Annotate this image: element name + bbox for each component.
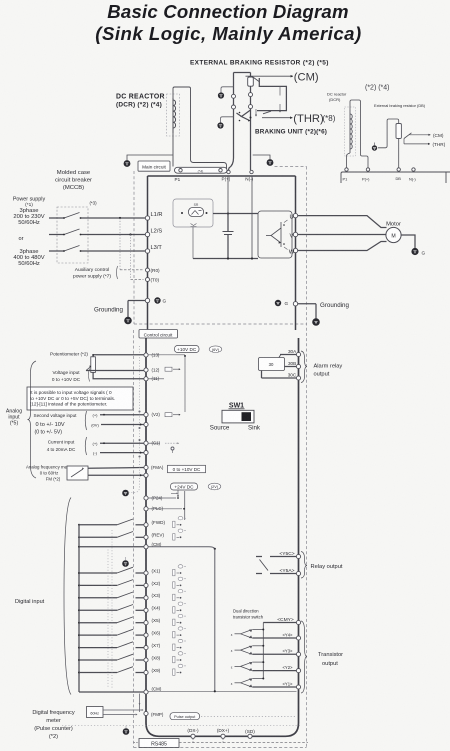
smoothing capacitor bbox=[227, 214, 229, 232]
wire 11 internal bbox=[148, 378, 164, 380]
control-circuit inner dotted shield line bbox=[139, 346, 141, 408]
MCCB dashed outline bbox=[57, 207, 88, 263]
terminal (PLC) bbox=[144, 507, 148, 511]
wire W to motor bbox=[298, 242, 387, 251]
wire CM lower internal bbox=[148, 690, 296, 692]
internal +10V DC supply label bbox=[175, 346, 200, 353]
junction on L2 wire bbox=[129, 233, 131, 235]
alarm relay contact blade bbox=[276, 355, 281, 363]
terminal (13) potentiometer supply bbox=[144, 353, 148, 357]
internal current sense mark bbox=[171, 447, 174, 450]
wire Y1 upper arrow to CMY rail bbox=[252, 678, 263, 680]
wire phase L1 input bbox=[49, 217, 64, 219]
inverter main-circuit dashed enclosure bbox=[275, 166, 307, 168]
switch contact to CM thermal relay bbox=[246, 75, 294, 77]
wire phase L2 input bbox=[49, 234, 64, 236]
terminal screw N(-) bbox=[250, 170, 253, 173]
braking unit top bridge wire bbox=[234, 72, 251, 74]
alarm relay contact 30C wire bbox=[262, 377, 297, 379]
grounding screw on inverter top right bbox=[267, 159, 274, 166]
alarm relay contact 30A wire bbox=[280, 354, 296, 356]
terminal screw P(+) bbox=[227, 170, 230, 173]
internal (6V) label bbox=[209, 346, 222, 353]
terminal (REV) reverse command with switch bbox=[78, 536, 80, 538]
wire DCR top elbow bbox=[173, 87, 227, 169]
main circuit terminal strip jumper bar P1-P(+) bbox=[175, 167, 228, 173]
wire grounding right bbox=[298, 303, 316, 305]
wire PLC internal bbox=[148, 508, 182, 510]
terminal <Y5A> bbox=[296, 571, 300, 575]
digital frequency meter element bbox=[87, 707, 104, 718]
wire DB resistor top loop bbox=[378, 119, 399, 148]
terminal (11) analog common bbox=[144, 377, 148, 381]
control circuit right bus bbox=[286, 338, 299, 736]
digital input group brace bbox=[64, 498, 71, 695]
junction 0V to common bbox=[140, 424, 142, 426]
wire +24V to P24 terminal bbox=[177, 490, 179, 496]
terminal (X5) digital input with switch bbox=[78, 622, 80, 624]
alarm relay output brace bbox=[301, 351, 307, 383]
internal buffer symbol 12 bbox=[165, 367, 172, 371]
wire P(+) feed down bbox=[227, 176, 229, 214]
Control circuit label box bbox=[139, 330, 178, 339]
pulse output label box bbox=[170, 713, 200, 720]
rectifier bridge bbox=[189, 208, 204, 217]
inverter control-circuit left dashed border bbox=[133, 330, 135, 748]
rectifier assembly outline bbox=[173, 199, 213, 227]
main circuit box right edge bbox=[295, 176, 297, 330]
terminal (CM) digital common lower bbox=[144, 690, 148, 694]
wire Y3 upper arrow to CMY rail bbox=[252, 645, 263, 647]
alarm relay contact 30B wire bbox=[285, 366, 297, 368]
inverter IGBT bridge box bbox=[258, 211, 292, 258]
wire motor ground bbox=[401, 235, 415, 248]
wire meter return bbox=[103, 714, 136, 716]
grounding screw on inverter top left bbox=[124, 160, 131, 167]
wire Y2 upper arrow to CMY rail bbox=[252, 661, 263, 663]
terminal <Y4> bbox=[296, 636, 300, 640]
terminal (X3) digital input with switch bbox=[78, 597, 80, 599]
inner return stub wire bbox=[279, 86, 281, 95]
analog input group brace bbox=[28, 361, 37, 478]
terminal (X9) digital input with switch bbox=[78, 672, 80, 674]
wire Y4 upper arrow to CMY rail bbox=[252, 629, 263, 631]
optional box right edge hint bbox=[445, 172, 447, 183]
terminal W bbox=[293, 248, 297, 252]
terminal (CM) digital common upper bbox=[144, 545, 148, 549]
potentiometer element bbox=[91, 357, 96, 373]
grounding terminal G right bbox=[275, 300, 281, 306]
relay output contact blade bbox=[260, 560, 269, 571]
wire DB resistor to DB terminal bbox=[398, 139, 400, 171]
junction current return bbox=[140, 452, 142, 454]
wire U to motor bbox=[298, 216, 387, 228]
connection arrow to braking unit terminal 2 bbox=[255, 115, 257, 117]
optional DC reactor coil bbox=[349, 110, 351, 153]
wire CM drop to meter return bbox=[139, 694, 141, 713]
wire potentiometer top to terminal 13 bbox=[93, 355, 144, 357]
wire phase L3 input bbox=[49, 250, 64, 252]
shield junction dots on dotted line bbox=[139, 411, 141, 413]
grounding screw on optional braking resistor bbox=[372, 145, 377, 150]
terminal (X1) digital input with switch bbox=[78, 572, 80, 574]
inverter bottom dashed border bbox=[134, 747, 307, 749]
terminal 30B bbox=[296, 364, 300, 368]
internal common rail vertical bbox=[214, 549, 216, 692]
terminal (C1) bbox=[144, 441, 148, 445]
breaker pole 2 bbox=[64, 229, 80, 235]
wire DC link negative rail bbox=[193, 258, 258, 260]
braking unit terminal screw lower-left bbox=[232, 105, 236, 109]
dotted pulse output run bbox=[201, 715, 295, 717]
optional inverter box top edge bbox=[341, 172, 450, 183]
braking unit terminal screw upper-right bbox=[249, 93, 253, 97]
terminal <Y1> bbox=[296, 685, 300, 689]
switch contact to THR thermal relay bbox=[262, 117, 293, 119]
wire Y3 output bbox=[252, 653, 296, 655]
dotted shield pair bottom bbox=[62, 725, 300, 727]
wire meter to FMA bbox=[88, 467, 144, 470]
wire CMY common bbox=[263, 622, 296, 624]
wire DCR to P1 terminal bbox=[172, 133, 174, 167]
terminal (X8) digital input with switch bbox=[78, 659, 80, 661]
junction DC+ at capacitor bbox=[227, 212, 229, 214]
ground symbol left bbox=[124, 317, 132, 325]
terminal <Y3> bbox=[296, 652, 300, 656]
alarm relay coil box 30 bbox=[259, 358, 285, 371]
wire Y1 output bbox=[252, 686, 296, 688]
terminal (FMP) bbox=[144, 711, 148, 715]
dotted drop to auxiliary R0 bbox=[119, 218, 121, 270]
terminal 30A bbox=[296, 352, 300, 356]
breaker pole 3 bbox=[64, 246, 80, 252]
terminal 30C bbox=[296, 376, 300, 380]
internal buffer symbol C1 bbox=[148, 442, 160, 444]
wire meter return bbox=[88, 474, 144, 476]
grounding screw terminal upper on braking unit bbox=[218, 92, 224, 98]
terminal (X7) digital input with switch bbox=[78, 647, 80, 649]
wire optional DCR to P1 bbox=[346, 156, 348, 171]
FMA output range label box bbox=[168, 465, 206, 472]
terminal <Y5C> bbox=[296, 554, 300, 558]
ground symbol motor bbox=[411, 248, 418, 255]
breaker pole 1 bbox=[64, 213, 80, 219]
wire connecting thermal switch legs bbox=[403, 139, 405, 144]
terminal <CMY> bbox=[296, 620, 300, 624]
relay output Y5C wire bbox=[270, 556, 296, 558]
dashed RS485 cable bbox=[179, 742, 308, 744]
wire optional DCR top loop to P(+) bbox=[350, 100, 368, 171]
wire grounding left bbox=[128, 300, 145, 302]
wire Y4 output bbox=[252, 637, 296, 639]
wire V to motor bbox=[298, 234, 386, 236]
shield ground symbol bottom bbox=[123, 728, 130, 735]
internal +24V DC supply label bbox=[171, 483, 198, 490]
terminal (X2) digital input with switch bbox=[78, 584, 80, 586]
terminal L2/S bbox=[145, 232, 149, 236]
wire DC link positive rail bbox=[213, 213, 258, 215]
main circuit box top edge bbox=[148, 175, 296, 177]
analog frequency meter element bbox=[67, 466, 88, 480]
terminal <Y2> bbox=[296, 669, 300, 673]
scan noise overlay bbox=[0, 0, 1, 1]
motor M bbox=[386, 227, 401, 242]
terminal (V2) bbox=[144, 413, 148, 417]
control circuit bottom bus bbox=[159, 735, 286, 737]
digital common vertical wire bbox=[78, 525, 80, 692]
main circuit box left edge bbox=[147, 176, 149, 330]
terminal V bbox=[293, 232, 297, 236]
terminal L3/T bbox=[145, 249, 149, 253]
dotted drop to auxiliary T0 bbox=[130, 235, 132, 280]
grounding screw terminal lower on braking unit bbox=[217, 122, 223, 128]
connection arrow to braking unit terminal 1 bbox=[279, 111, 281, 113]
braking unit right vertical wire N(-) riser bbox=[250, 73, 252, 171]
wire 13 internal to +10V rail bbox=[148, 354, 185, 356]
wire Y2 output bbox=[252, 670, 296, 672]
optional terminal screws P1 P(+) DB N(-) bbox=[345, 168, 348, 171]
terminal (12) voltage input bbox=[144, 368, 148, 372]
internal buffer symbol V2 bbox=[165, 413, 172, 417]
RS485 connector box bbox=[139, 739, 179, 748]
SW1 slide switch body bbox=[222, 410, 254, 423]
junction on L1 wire bbox=[119, 217, 121, 219]
wire potentiometer bottom to terminal 11 bbox=[93, 372, 144, 378]
wire CM internal to common rail bbox=[148, 547, 214, 549]
braking unit terminal screw lower-right bbox=[249, 105, 253, 109]
wire potentiometer wiper to terminal 12 bbox=[86, 370, 144, 372]
braking unit terminal screw upper-left bbox=[232, 94, 236, 98]
terminal L1/R bbox=[145, 216, 149, 220]
grounding terminal G left bbox=[145, 298, 149, 302]
wire N(-) feed down bbox=[251, 176, 253, 259]
optional thermal switch to THR bbox=[404, 143, 430, 145]
Main circuit label box bbox=[138, 161, 170, 171]
IGBT transistor symbol bbox=[280, 222, 282, 247]
wire meter to FMP bbox=[103, 709, 142, 711]
braking unit chopper transistor bbox=[242, 110, 251, 121]
relay output brace bbox=[301, 552, 307, 579]
inverter right dashed border bbox=[306, 167, 308, 748]
DC reactor DCR inductor coil bbox=[172, 98, 174, 133]
relay output Y5A wire bbox=[270, 573, 296, 575]
braking unit left vertical wire P(+) riser bbox=[229, 73, 234, 171]
optional external braking resistor DB element bbox=[396, 124, 401, 139]
CMY common rail vertical bbox=[262, 623, 264, 679]
wire CM lower external common return bbox=[79, 691, 144, 693]
internal +24V rail bbox=[184, 491, 186, 520]
ground symbol right bbox=[312, 318, 320, 326]
CM return loop wire bbox=[257, 78, 286, 111]
rectifier diode marks bbox=[191, 224, 197, 227]
junction rectifier input bbox=[181, 212, 183, 214]
internal (2V) label bbox=[208, 483, 221, 490]
terminal (X4) digital input with switch bbox=[78, 609, 80, 611]
transistor output brace bbox=[301, 621, 307, 693]
terminal (R0) bbox=[146, 268, 150, 272]
terminal (X6) digital input with switch bbox=[78, 634, 80, 636]
dotted shield drain to ground bbox=[129, 408, 140, 493]
optional thermal switch to CM bbox=[410, 134, 431, 136]
DC reactor dashed outline bbox=[167, 94, 180, 136]
shield ground symbol analog bbox=[122, 490, 129, 497]
junction DC- rail bbox=[227, 257, 229, 259]
terminal (FWD) forward command with switch bbox=[78, 524, 80, 526]
terminal U bbox=[293, 213, 297, 217]
shield ground symbol digital bbox=[122, 560, 129, 567]
terminal (FMA) bbox=[144, 465, 148, 469]
terminal (T0) bbox=[146, 278, 150, 282]
wire CM common external bbox=[78, 546, 80, 548]
terminal (P24) bbox=[144, 496, 148, 500]
control circuit left bus bbox=[146, 338, 159, 736]
external braking resistor element bbox=[248, 77, 254, 86]
note box voltage signal option bbox=[27, 387, 133, 410]
dotted cable pair digital bbox=[107, 550, 109, 689]
